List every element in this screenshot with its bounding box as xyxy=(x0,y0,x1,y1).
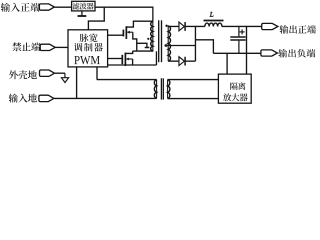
rail drop to PWM supply jog xyxy=(88,7,104,30)
isolation amplifier box 隔离放大器 xyxy=(218,74,251,103)
Q1 drain to rail junction xyxy=(126,21,153,27)
wire D1 to inductor node xyxy=(186,25,205,27)
phase mark primary xyxy=(147,38,149,40)
Q1 source path down xyxy=(133,32,137,51)
text 调制器 xyxy=(74,43,103,52)
wire PWM to T2 primary top xyxy=(97,79,157,81)
text PWM xyxy=(74,56,100,64)
transformer T2 primary winding xyxy=(154,80,156,99)
filter box 滤波器 xyxy=(72,1,95,11)
phase dot secondary xyxy=(165,25,167,27)
PWM bottom stub 2 to feedback transformer xyxy=(96,67,98,80)
label inhibit 禁止端 xyxy=(12,42,40,51)
label input-positive 输入正端 xyxy=(1,3,40,12)
junction dot center tap xyxy=(165,44,168,47)
wire D2 to node riser xyxy=(186,60,196,62)
switching node wire to primary bottom xyxy=(133,50,154,52)
label L xyxy=(210,12,214,17)
text 放大器 xyxy=(223,93,248,101)
terminal tag input positive xyxy=(39,4,54,10)
gate wire PWM to Q2 xyxy=(108,58,123,60)
transformer T2 core xyxy=(160,78,162,99)
center tap return jog xyxy=(195,40,213,54)
label output-positive 输出正端 xyxy=(279,25,315,34)
wire input+ to filter xyxy=(54,6,71,8)
label output-negative 输出负端 xyxy=(278,49,315,58)
plus sign polarity xyxy=(240,31,245,33)
wire secondary bottom to D2 xyxy=(168,60,179,62)
inductor L core bar xyxy=(204,20,224,22)
input ground rail xyxy=(54,97,157,99)
Q2 drain jog to switching node xyxy=(125,51,132,53)
label case-ground 外壳地 xyxy=(9,70,37,79)
gate wire PWM to Q1 xyxy=(108,34,124,36)
wire T2 secondary bottom to amp xyxy=(168,98,219,100)
chassis ground symbol xyxy=(64,73,66,78)
transformer T1 secondary winding xyxy=(168,26,170,61)
output negative rail xyxy=(213,52,261,54)
text 脉宽 xyxy=(80,34,98,43)
inductor L winding xyxy=(205,23,222,26)
feedback wire output+ to isolation amp xyxy=(246,26,248,74)
wire inductor to output+ tag xyxy=(222,25,262,27)
terminal tag case ground xyxy=(40,70,55,76)
wire output- rail to isolation amp xyxy=(226,53,228,74)
diode D2 xyxy=(179,57,184,66)
center tap wire xyxy=(166,45,196,47)
text 隔离 xyxy=(230,82,245,90)
wire inhibit to PWM xyxy=(55,46,68,48)
terminal tag input ground xyxy=(39,95,54,101)
transistor Q1 top switch xyxy=(122,30,124,37)
terminal tag output positive xyxy=(262,23,278,29)
wire case ground xyxy=(55,72,65,74)
rail down to primary top xyxy=(152,7,154,21)
stub with bar on Q1 source xyxy=(137,43,147,47)
transformer T2 secondary winding xyxy=(168,80,170,99)
PWM bottom stub 1 to ground rail xyxy=(76,67,78,99)
wire T2 secondary top to amp xyxy=(168,79,219,81)
PWM box 脉宽调制器 xyxy=(68,30,108,67)
diode D1 xyxy=(179,22,184,31)
label input-ground 输入地 xyxy=(9,94,37,103)
riser D2 node to inductor input xyxy=(194,26,196,61)
transformer T1 core xyxy=(158,20,160,62)
Q2 source wire from PWM under gate to primary spine xyxy=(132,59,134,65)
wire secondary top to D1 xyxy=(168,25,179,27)
transformer T1 primary winding xyxy=(151,22,153,51)
transistor Q2 bottom switch xyxy=(121,55,123,64)
stub with bar under filter xyxy=(81,11,83,16)
top rail filter to transformer xyxy=(95,6,154,8)
terminal tag inhibit xyxy=(40,44,55,50)
terminal tag output negative xyxy=(261,50,278,56)
text 滤波器 xyxy=(73,3,94,10)
capacitor C1 xyxy=(238,26,240,36)
